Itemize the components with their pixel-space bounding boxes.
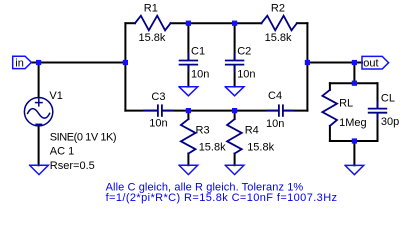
svg-text:R2: R2 bbox=[271, 3, 285, 15]
svg-text:SINE(0 1V 1K): SINE(0 1V 1K) bbox=[50, 132, 116, 144]
resistor R1 bbox=[135, 16, 171, 31]
wire R4 top lead bbox=[234, 111, 236, 120]
wire RL bottom lead bbox=[329, 126, 331, 141]
wire C3 right to node3 to node4 to C4 left bbox=[163, 110, 278, 112]
svg-text:RL: RL bbox=[339, 98, 353, 110]
wire in node down to V1 top bbox=[38, 63, 40, 98]
node junction mid R3 bbox=[186, 108, 191, 113]
svg-text:in: in bbox=[15, 57, 24, 69]
svg-text:C3: C3 bbox=[151, 91, 165, 103]
node junction riser2-out bbox=[305, 60, 310, 65]
svg-text:C4: C4 bbox=[268, 90, 282, 102]
node junction riser1-in bbox=[123, 60, 128, 65]
svg-text:15.8k: 15.8k bbox=[265, 32, 292, 44]
wire load top rail bbox=[330, 82, 378, 84]
svg-text:30p: 30p bbox=[381, 116, 399, 128]
svg-text:15.8k: 15.8k bbox=[247, 142, 274, 154]
wire R1 right to node1 to node2 to R2 left bbox=[171, 22, 262, 24]
svg-text:10n: 10n bbox=[191, 69, 209, 81]
ground under load bbox=[345, 165, 364, 174]
wire drop from out node to load top bbox=[353, 63, 355, 84]
wire C2 bottom lead to ground bbox=[234, 65, 236, 86]
wire RL top lead bbox=[329, 83, 331, 90]
resistor R2 bbox=[261, 16, 297, 31]
wire out node row bbox=[307, 62, 362, 64]
svg-text:1Meg: 1Meg bbox=[339, 117, 367, 129]
svg-text:R4: R4 bbox=[245, 125, 259, 137]
wire V1 bottom to ground bbox=[38, 126, 40, 166]
wire in-port stub to in node bbox=[31, 62, 38, 64]
svg-text:CL: CL bbox=[381, 93, 395, 105]
capacitor C3 bbox=[144, 105, 173, 116]
svg-text:f=1/(2*pi*R*C) R=15.8k C=10nF: f=1/(2*pi*R*C) R=15.8k C=10nF f=1007.3Hz bbox=[106, 192, 338, 204]
node junction mid R4 bbox=[232, 108, 237, 113]
wire load bottom to ground bbox=[353, 141, 355, 165]
wire riser1 vertical bbox=[124, 23, 126, 110]
ground under C1 bbox=[179, 87, 198, 96]
resistor R3 bbox=[181, 119, 196, 153]
svg-text:10n: 10n bbox=[237, 69, 255, 81]
svg-text:V1: V1 bbox=[49, 90, 62, 102]
voltage source V1 bbox=[24, 98, 52, 126]
capacitor C4 bbox=[268, 105, 293, 116]
capacitor CL bbox=[369, 102, 387, 119]
node junction load bottom bbox=[352, 138, 357, 143]
capacitor C1 bbox=[180, 54, 198, 71]
ground under C2 bbox=[225, 87, 244, 96]
wire R2 right to riser2 bbox=[297, 22, 308, 24]
wire R4 bottom lead to ground bbox=[234, 154, 236, 166]
svg-text:R3: R3 bbox=[196, 125, 210, 137]
svg-text:Rser=0.5: Rser=0.5 bbox=[50, 160, 95, 172]
node junction load top bbox=[352, 81, 357, 86]
wire CL top lead bbox=[377, 83, 379, 108]
wire CL bottom lead bbox=[377, 113, 379, 141]
node junction top C1 bbox=[186, 21, 191, 26]
wire R3 bottom lead to ground bbox=[187, 154, 189, 166]
svg-text:15.8k: 15.8k bbox=[199, 142, 226, 154]
capacitor C2 bbox=[226, 54, 244, 71]
resistor RL bbox=[322, 90, 337, 126]
svg-text:C2: C2 bbox=[237, 46, 251, 58]
ground under R3 bbox=[179, 165, 198, 174]
ground under V1 bbox=[30, 165, 49, 174]
svg-text:out: out bbox=[363, 58, 378, 70]
svg-text:15.8k: 15.8k bbox=[139, 32, 166, 44]
svg-text:C1: C1 bbox=[191, 46, 205, 58]
node junction top C2 bbox=[232, 21, 237, 26]
svg-text:10n: 10n bbox=[149, 118, 167, 130]
wire in node to riser1 bbox=[39, 62, 126, 64]
node junction in bbox=[36, 60, 41, 65]
wire riser2 vertical bbox=[306, 23, 308, 110]
node junction out-port bbox=[352, 60, 357, 65]
port out bbox=[362, 56, 389, 69]
svg-text:R1: R1 bbox=[144, 3, 158, 15]
wire C1 bottom lead to ground bbox=[187, 65, 189, 86]
wire middle row left to C3 bbox=[125, 110, 157, 112]
wire top row left segment to R1 bbox=[125, 22, 135, 24]
wire C4 right to riser2 bottom bbox=[284, 110, 308, 112]
wire C2 top lead bbox=[234, 23, 236, 60]
resistor R4 bbox=[227, 119, 242, 153]
wire R3 top lead bbox=[187, 111, 189, 120]
svg-text:10n: 10n bbox=[266, 118, 284, 130]
svg-text:AC 1: AC 1 bbox=[50, 146, 74, 158]
wire C1 top lead bbox=[187, 23, 189, 60]
port in bbox=[13, 56, 32, 68]
wire load bottom rail bbox=[330, 140, 378, 142]
ground under R4 bbox=[225, 165, 244, 174]
